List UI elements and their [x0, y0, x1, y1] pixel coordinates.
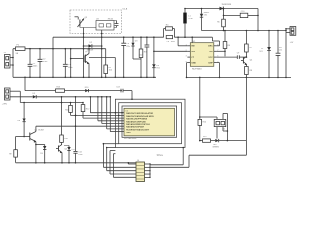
svg-text:4.7m: 4.7m	[188, 18, 193, 20]
svg-text:5V1: 5V1	[204, 15, 207, 17]
svg-text:VIN: VIN	[191, 51, 195, 53]
resistor R13 inline	[56, 89, 65, 92]
svg-text:BC807: BC807	[38, 130, 44, 132]
wire J3 pin1	[286, 28, 290, 30]
svg-text:CMP: CMP	[208, 62, 213, 64]
capacitor C1	[29, 49, 31, 65]
svg-text:RA3/MCLR/VPP/SENS: RA3/MCLR/VPP/SENS	[126, 118, 148, 121]
wire pin row 5	[102, 123, 124, 125]
capacitor C13 inline	[120, 89, 122, 93]
svg-text:SW: SW	[191, 46, 194, 48]
inductor L1	[184, 9, 186, 13]
wire VCC mid rail right	[174, 36, 212, 38]
svg-text:100n: 100n	[171, 41, 175, 43]
regulator U3 in module	[96, 21, 114, 31]
wire corner R2 column	[105, 49, 107, 65]
ground rail primary	[13, 76, 156, 78]
wire pin1 connect	[178, 45, 187, 47]
wire J4 route right 2	[150, 166, 189, 168]
wire pin row 1	[90, 112, 124, 114]
transistor Q3 in module	[75, 16, 79, 18]
wire VIN drop to Q1	[23, 103, 25, 119]
wire opto column from rail	[199, 77, 201, 119]
wire mid rail corner to pin8	[211, 37, 213, 41]
capacitor C6 bulk electrolytic	[123, 37, 125, 43]
wire J4 pin5 feed	[112, 154, 114, 178]
capacitor C12	[75, 149, 77, 151]
wire R11 to pin row	[71, 114, 125, 116]
wire pin6 connect	[217, 56, 238, 58]
svg-text:NCP3063: NCP3063	[192, 68, 202, 70]
wire to LED	[211, 140, 216, 142]
diode D2	[84, 45, 89, 47]
svg-text:C8: C8	[167, 41, 169, 43]
svg-text:R13: R13	[57, 86, 60, 88]
LED D11	[215, 139, 218, 142]
svg-text:78L05: 78L05	[108, 19, 114, 21]
wire pin2 connect	[154, 50, 188, 52]
wire VDD into loop	[123, 90, 132, 92]
svg-text:D10: D10	[85, 87, 88, 89]
svg-text:C13: C13	[116, 87, 119, 89]
resistor R15 inline	[203, 139, 211, 142]
svg-text:47u: 47u	[127, 46, 130, 48]
svg-text:C10: C10	[241, 11, 244, 13]
wire Q3 emitter down	[79, 27, 81, 28]
svg-text:5V1: 5V1	[259, 51, 262, 53]
wire feed ext 3	[110, 150, 115, 152]
wire AC line top	[13, 48, 106, 50]
resistor R12 chain	[82, 103, 84, 105]
svg-text:+VIN: +VIN	[2, 104, 7, 106]
svg-text:C9: C9	[237, 53, 239, 55]
resistor R3 vertical	[140, 37, 142, 49]
svg-text:D9: D9	[40, 153, 42, 155]
IC U1 switcher	[190, 43, 214, 67]
transistor Q5	[61, 142, 63, 145]
wire fan feed 5	[101, 97, 103, 124]
zener D6	[201, 9, 203, 14]
zener D4 vertical	[153, 37, 155, 64]
connector J1 mains input	[5, 55, 11, 69]
wire feedback riser	[245, 77, 247, 140]
wire feed ext 4	[113, 153, 115, 155]
wire opto pin2 down	[216, 127, 218, 139]
wire J4 pin2 feed	[102, 144, 104, 168]
secondary bus rail	[202, 30, 287, 32]
wire fan feed 1	[89, 97, 91, 113]
diode D1	[220, 7, 224, 11]
wire pin4 connect	[186, 62, 189, 64]
connector J3 output	[290, 27, 296, 36]
pin 4 U1 left	[187, 62, 190, 64]
wire J4 right pins bus	[145, 163, 151, 165]
resistor R11 chain	[70, 103, 72, 106]
wire module drop 1	[83, 34, 85, 78]
wire opto top rail	[200, 116, 217, 118]
resistor R8	[245, 65, 247, 67]
wire pin row 7	[107, 128, 124, 130]
pin 1 U1 left	[187, 45, 190, 47]
pin 6 U1 right	[214, 56, 217, 58]
svg-text:PIC16F1824: PIC16F1824	[124, 138, 137, 140]
svg-text:Q5: Q5	[64, 149, 67, 151]
wire J4 pin4 feed	[109, 151, 111, 174]
wire drop to rail	[114, 58, 116, 78]
wire J3 pin2	[286, 32, 290, 34]
wire loop C around MCU	[115, 99, 185, 147]
svg-text:C11: C11	[279, 50, 282, 52]
pin 2 U1 left	[187, 50, 190, 52]
svg-text:5V1: 5V1	[156, 68, 159, 70]
svg-text:Q4: Q4	[250, 60, 253, 62]
svg-text:R9: R9	[9, 153, 11, 155]
wire node A vertical	[52, 37, 54, 77]
wire C10 rail	[224, 14, 241, 16]
svg-text:1N4148: 1N4148	[87, 50, 94, 52]
ground rail bottom	[16, 162, 136, 164]
capacitor C5 in module	[116, 21, 118, 24]
svg-text:RA5/OSC1/SW REGULATOR: RA5/OSC1/SW REGULATOR	[126, 112, 153, 115]
svg-text:R11: R11	[65, 109, 68, 111]
wire fan feed 7	[106, 97, 108, 129]
wire C10 to riser	[248, 14, 258, 16]
wire module bottom	[114, 27, 117, 29]
wire VIN rail	[20, 102, 83, 104]
svg-text:SPare: SPare	[157, 154, 164, 157]
svg-text:R14: R14	[203, 121, 206, 123]
wire fan feed 4	[97, 97, 99, 121]
wire Q1 collector rail	[36, 125, 124, 127]
resistor R14 vertical	[198, 119, 202, 125]
zener D9	[36, 144, 45, 146]
svg-text:10k: 10k	[109, 70, 112, 72]
transistor Q4	[245, 52, 247, 57]
wire Q1 emitter	[35, 142, 37, 163]
wire Q2 out right	[89, 57, 115, 59]
pin 5 U1 right	[214, 62, 217, 64]
diode D10 inline	[85, 89, 88, 92]
wire pin row 4	[98, 120, 124, 122]
MCU U4 box	[124, 108, 175, 136]
svg-text:100n: 100n	[68, 67, 72, 69]
svg-text:3: 3	[186, 56, 187, 58]
wire J4 pin3 feed	[106, 148, 108, 171]
transistor Q2 switch	[71, 58, 84, 60]
pin 8 U1 right	[214, 45, 217, 47]
svg-text:R7: R7	[250, 47, 252, 49]
svg-text:R8: R8	[250, 70, 252, 72]
wire pin5 connect	[217, 62, 220, 64]
wire module drop 2	[101, 30, 103, 77]
connector J4 programming header	[136, 162, 145, 182]
fuse F1	[16, 47, 26, 51]
wire after D5	[36, 96, 110, 98]
resistor R6 vertical	[224, 31, 226, 42]
svg-text:U2.A: U2.A	[123, 7, 128, 10]
wire J2 pin1 route	[10, 90, 20, 92]
capacitor C10 inline	[240, 13, 248, 17]
wire J4 pin1 gnd	[128, 163, 136, 165]
wire pin row 8	[110, 131, 124, 133]
zener D7	[268, 31, 270, 48]
resistor R9 vertical	[14, 150, 18, 157]
diode D3 vertical	[132, 37, 134, 43]
wire VDD corner	[24, 77, 26, 90]
node module outputs	[83, 33, 85, 35]
svg-text:R10: R10	[64, 138, 67, 140]
svg-text:RA0/AN0/ICSPDAT: RA0/AN0/ICSPDAT	[126, 126, 145, 129]
svg-text:DRC: DRC	[208, 46, 213, 48]
svg-text:RA2/AN2/COMP/LED: RA2/AN2/COMP/LED	[126, 120, 146, 123]
svg-text:1N5819WS: 1N5819WS	[222, 4, 232, 6]
wire opto bottom rail	[200, 140, 203, 142]
wire top hv rail	[185, 8, 258, 10]
capacitor C3	[64, 49, 66, 65]
diode D5 inline	[33, 95, 36, 98]
wire loop A around MCU	[122, 106, 177, 137]
wire opto pin3 down	[222, 127, 224, 131]
resistor R10 chain	[61, 97, 63, 135]
svg-text:R12: R12	[86, 108, 89, 110]
transistor Q1	[23, 136, 25, 138]
capacitor C7	[146, 37, 148, 45]
svg-text:R6: R6	[228, 45, 230, 47]
wire Q2 drain	[88, 49, 90, 54]
svg-text:100n: 100n	[78, 154, 82, 156]
wire loop B around MCU	[119, 103, 182, 144]
svg-text:GREEN: GREEN	[212, 147, 219, 149]
svg-text:GND: GND	[191, 62, 196, 64]
svg-text:RC5/RX/DT BACKLIGHT: RC5/RX/DT BACKLIGHT	[126, 128, 150, 131]
wire fan feed 8	[109, 97, 111, 132]
capacitor C9 inline	[236, 55, 238, 59]
pin 7 U1 right	[214, 50, 217, 52]
wire mid column	[75, 97, 77, 149]
transistor chain R7	[245, 31, 247, 45]
wire D1 to branch	[223, 9, 225, 16]
wire J1 pin1	[10, 57, 13, 59]
wire loop C bottom ext	[107, 147, 116, 149]
wire J3 riser	[285, 29, 287, 78]
wire input riser	[12, 49, 14, 78]
wire J1 pin2	[10, 64, 13, 66]
wire Q1 collector	[35, 126, 37, 131]
pin 3 U1 left	[187, 56, 190, 58]
capacitor C2 electrolytic	[39, 49, 41, 60]
svg-text:R5: R5	[217, 22, 219, 24]
svg-text:R15: R15	[203, 136, 206, 138]
wire pin7 connect	[217, 50, 225, 52]
capacitor C11 electrolytic	[277, 31, 279, 54]
svg-text:VCC: VCC	[208, 57, 213, 59]
wire LED to corner	[219, 140, 247, 142]
svg-text:D12: D12	[72, 149, 75, 151]
svg-text:D8: D8	[18, 120, 20, 122]
optocoupler U5	[216, 117, 218, 119]
svg-text:GND: GND	[126, 132, 131, 134]
svg-text:IPK: IPK	[209, 51, 213, 53]
diode D8 vertical	[23, 119, 26, 122]
wire VDD rail mcu	[25, 90, 122, 92]
wire base resistor link	[16, 136, 25, 138]
wire J4 route right	[150, 164, 183, 166]
wire VCC mid rail left	[53, 36, 164, 38]
wire loop B bottom ext	[103, 143, 118, 145]
svg-text:470u: 470u	[43, 61, 47, 63]
svg-text:100n: 100n	[33, 66, 37, 68]
LED D12 indicator	[64, 145, 69, 147]
svg-text:RA4/OSC2/AN3/SOLAR MON: RA4/OSC2/AN3/SOLAR MON	[126, 115, 154, 118]
RC snubber R4 C8 inline	[163, 29, 165, 38]
wire R12 to pin row	[83, 117, 124, 119]
svg-text:RA1/AN1/VREF/ICSPCLK: RA1/AN1/VREF/ICSPCLK	[126, 123, 150, 126]
wire node B vertical	[70, 49, 72, 78]
wire right riser	[257, 9, 259, 31]
resistor R2 vertical	[104, 65, 108, 74]
wire route up to opto	[245, 141, 247, 156]
svg-text:10u: 10u	[279, 47, 282, 49]
wire opto pin4 up	[222, 113, 224, 119]
connector J2 VIN input	[5, 88, 11, 100]
svg-text:100n: 100n	[139, 54, 143, 56]
wire U1 vcc riser	[191, 37, 193, 43]
module U2.A dashed box	[70, 10, 122, 34]
wire J2 pin2	[10, 96, 33, 98]
resistor R5 vertical	[223, 15, 225, 19]
ground rail secondary	[187, 76, 292, 78]
wire Q2 source	[88, 64, 90, 78]
